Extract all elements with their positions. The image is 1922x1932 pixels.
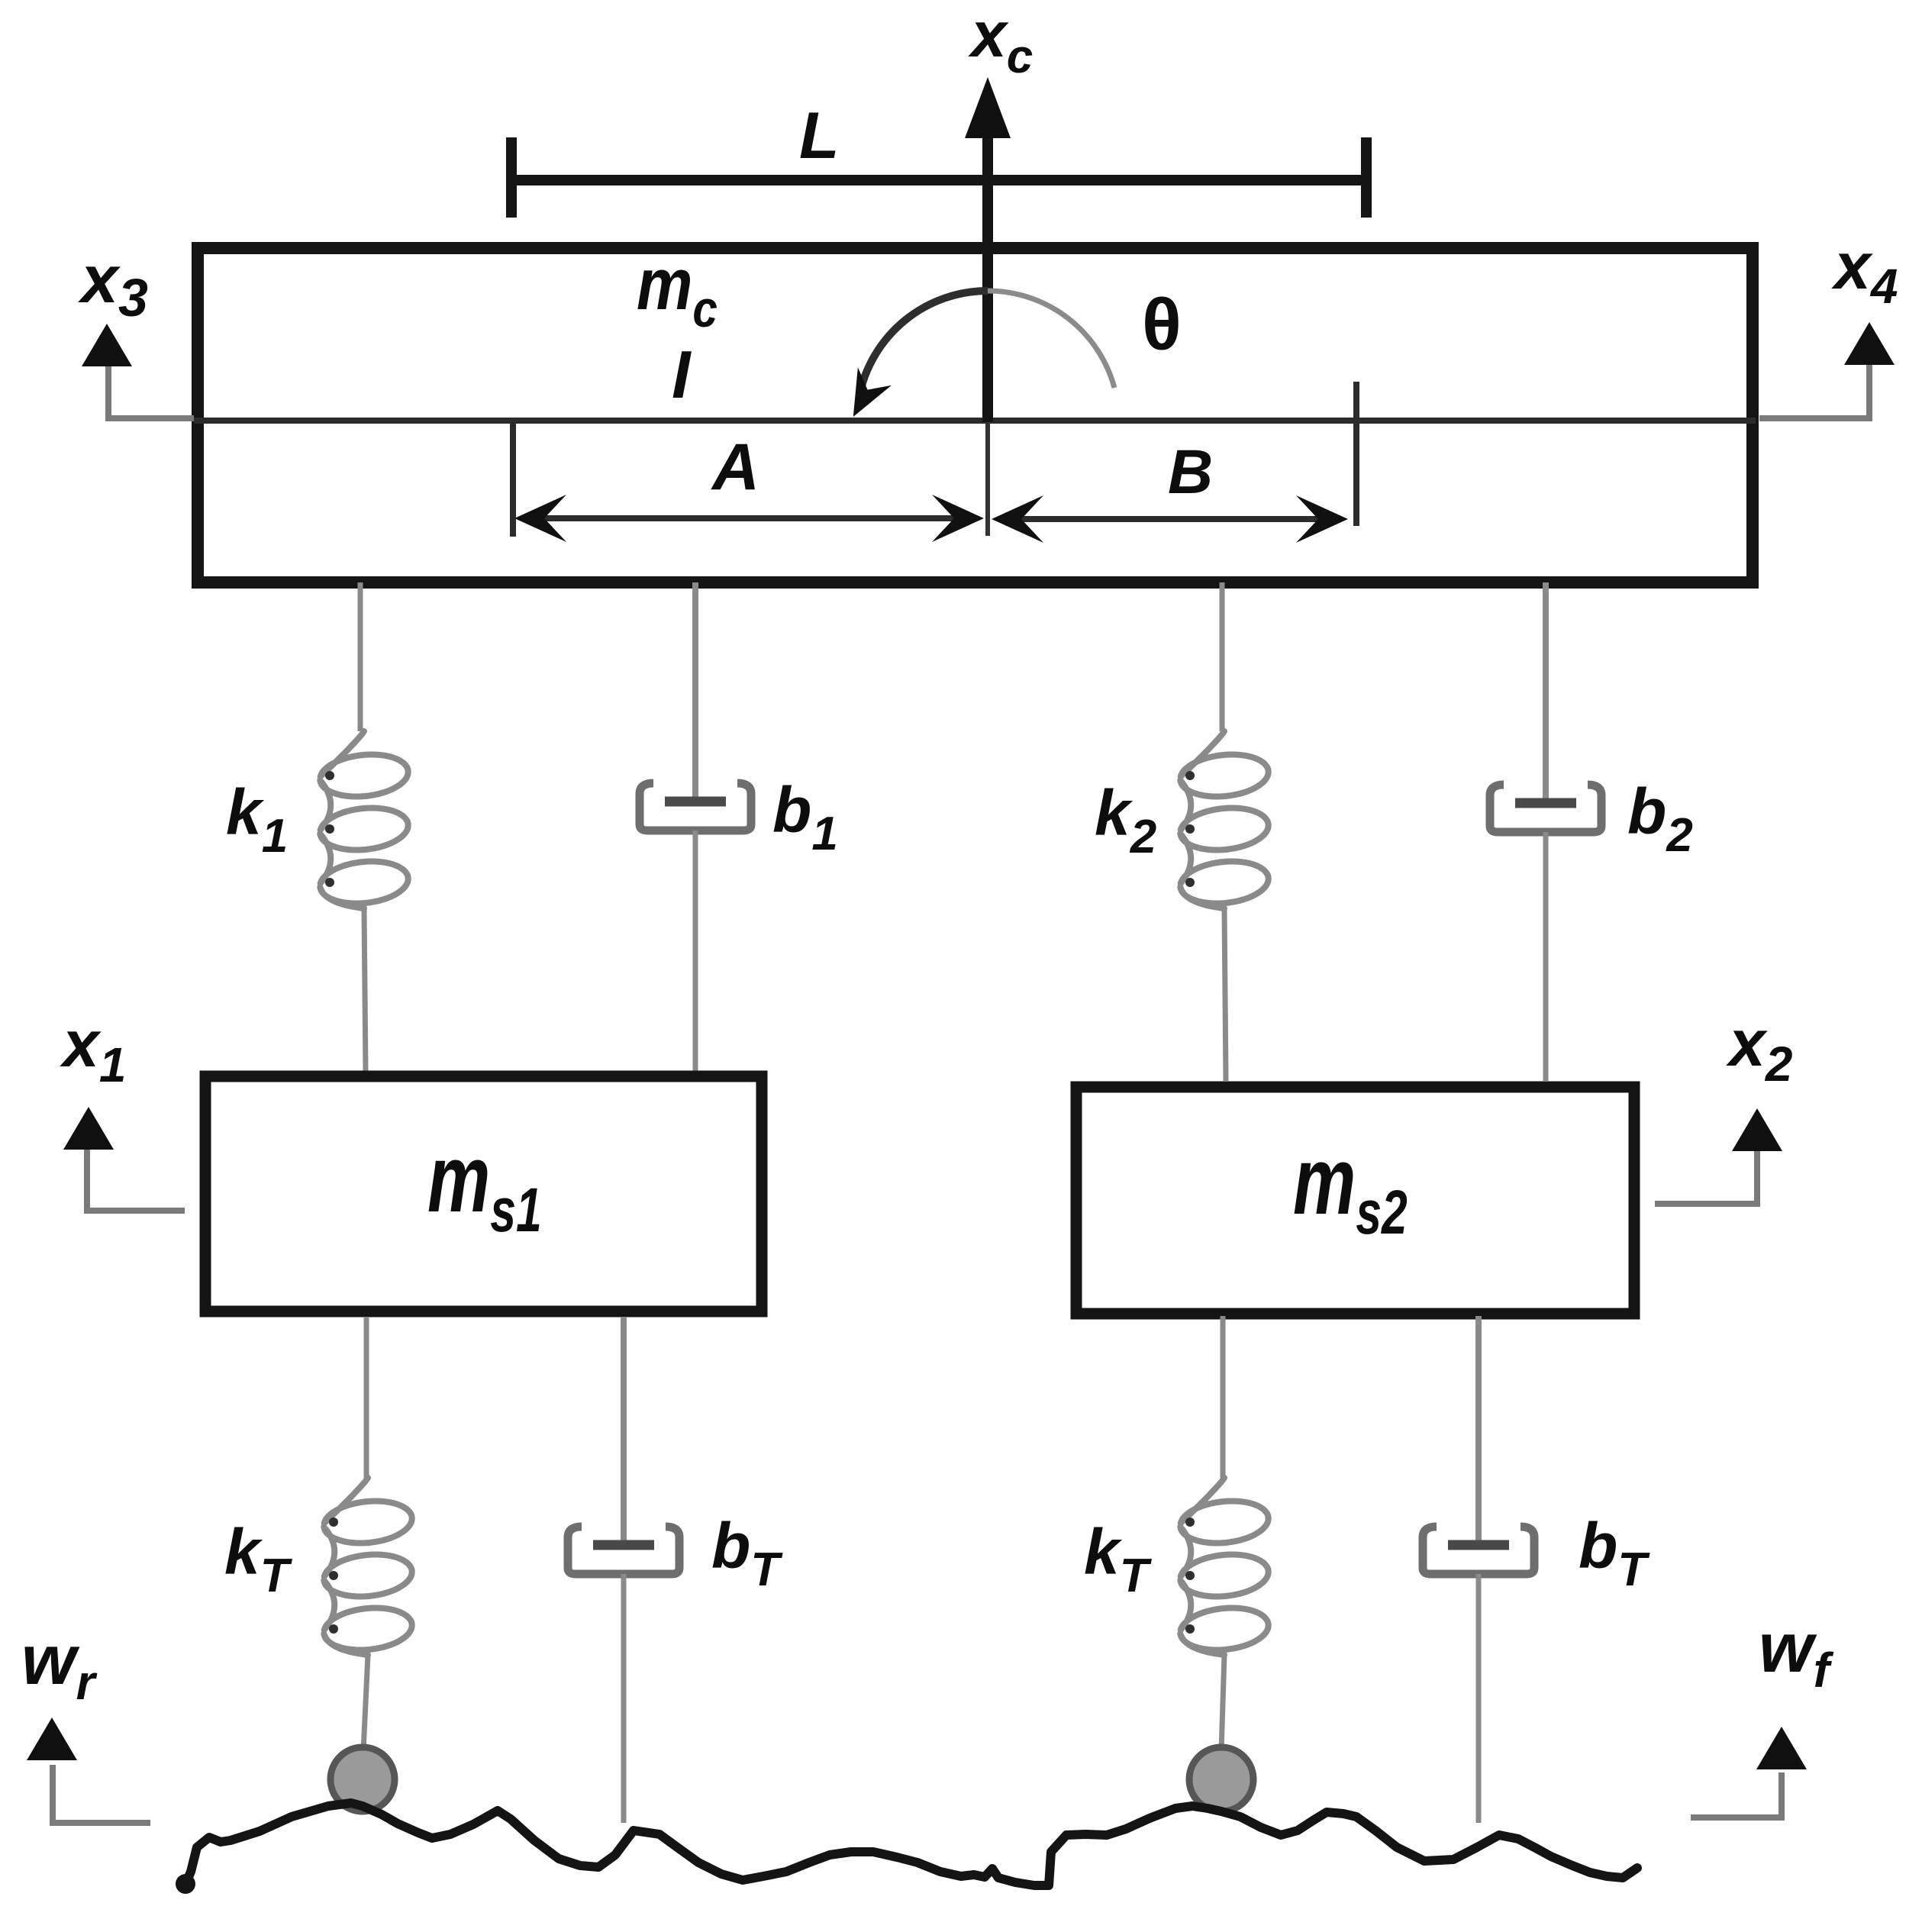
svg-text:I: I — [672, 337, 692, 412]
x_3 axis arrow (body left corner) — [108, 365, 194, 418]
damper bT-right piston plate — [1448, 1540, 1509, 1550]
spring k1 — [320, 731, 408, 908]
damper bT-left cylinder cup — [568, 1527, 679, 1574]
wire: lower rod of damper b1 — [693, 831, 698, 1072]
svg-text:A: A — [711, 431, 759, 504]
damper b2 piston plate — [1515, 798, 1576, 808]
dimension line L with end ticks — [507, 175, 1371, 185]
wire: mass ms1 to tyre spring kT — [364, 1318, 369, 1478]
wire: centre line through body (static equilibrium axis) — [194, 418, 1756, 424]
damper b1 cylinder cup — [640, 783, 751, 831]
wire: pivot vertical below centre — [985, 422, 990, 536]
x_1 axis arrow (mass ms1) — [87, 1149, 185, 1211]
wire: upper rod of damper bT-right — [1475, 1316, 1482, 1545]
x_2 axis arrow (mass ms2) — [1655, 1151, 1757, 1204]
unsprung mass ms1 rectangle — [205, 1076, 762, 1311]
tyre spring kT (left) — [324, 1478, 411, 1655]
wire: lower rod of damper b2 — [1543, 832, 1549, 1081]
svg-text:L: L — [799, 99, 840, 173]
spring k2 — [1180, 731, 1268, 908]
unsprung mass ms2 rectangle — [1076, 1087, 1634, 1314]
pitch angle arc theta with arrowhead — [988, 291, 1114, 388]
damper b1 piston plate — [665, 797, 726, 807]
wheel contact ball (right) — [1189, 1747, 1253, 1811]
w_f road input arrow (front) — [1691, 1772, 1782, 1817]
label m_c — [637, 243, 718, 338]
label m_s2 — [1293, 1127, 1408, 1247]
tyre spring kT (right) — [1180, 1478, 1268, 1655]
wire: spring kT to wheel contact — [363, 1655, 368, 1751]
wire: body to spring k1 — [358, 582, 363, 731]
wire: spring k1 to mass ms1 — [364, 908, 366, 1072]
wire: upper rod of damper bT-left — [621, 1318, 627, 1545]
wire: upper rod of damper b1 — [692, 582, 698, 802]
wire: lower rod of damper bT-right — [1476, 1574, 1482, 1823]
wire: upper rod of damper b2 — [1543, 582, 1549, 803]
label m_s1 — [427, 1125, 542, 1245]
dimension arrow A (left half) with tick — [534, 515, 977, 521]
damper bT-right cylinder cup — [1423, 1527, 1534, 1574]
svg-text:θ: θ — [1142, 284, 1182, 366]
road surface profile squiggle — [185, 1803, 1637, 1885]
damper bT-left piston plate — [593, 1540, 654, 1550]
svg-text:B: B — [1168, 437, 1213, 507]
wire: spring kT right to wheel contact — [1221, 1655, 1224, 1751]
wire: mass ms2 to tyre spring kT — [1221, 1316, 1226, 1478]
damper b2 cylinder cup — [1490, 785, 1601, 832]
wheel contact ball (left) — [331, 1747, 395, 1811]
wire: body to spring k2 — [1220, 582, 1225, 731]
wire: spring k2 to mass ms2 — [1224, 908, 1226, 1081]
w_r road input arrow (rear) — [53, 1765, 150, 1823]
dimension arrow B (right half) with tick — [998, 516, 1340, 522]
car body mass m_c rectangle — [198, 248, 1753, 582]
x_4 axis arrow (body right corner) — [1759, 365, 1869, 418]
x_c axis arrow (body heave) — [982, 122, 993, 422]
wire: lower rod of damper bT-left — [621, 1574, 627, 1823]
road start dot — [176, 1874, 195, 1894]
